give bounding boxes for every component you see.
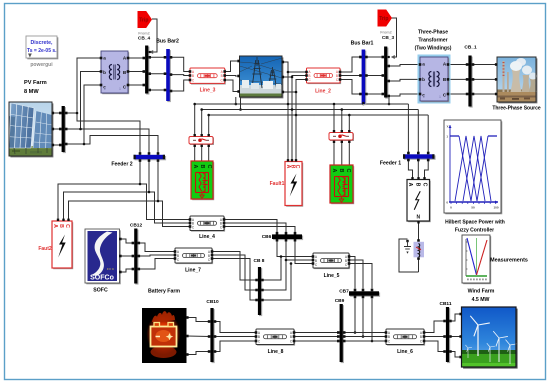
svg-text:A: A — [192, 165, 198, 169]
svg-text:Three-Phase: Three-Phase — [418, 30, 448, 36]
svg-text:F F C: F F C — [107, 267, 114, 271]
svg-text:Line_3: Line_3 — [200, 88, 216, 94]
svg-text:Line_7: Line_7 — [185, 268, 201, 274]
svg-text:Transformer: Transformer — [418, 38, 447, 44]
svg-text:100: 100 — [493, 206, 498, 210]
svg-text:C: C — [64, 224, 70, 228]
svg-text:B: B — [290, 335, 292, 339]
svg-text:Feeder 1: Feeder 1 — [380, 161, 401, 167]
svg-text:A: A — [407, 183, 413, 187]
svg-text:B: B — [192, 74, 194, 78]
svg-text:Trip: Trip — [379, 16, 388, 22]
svg-text:A: A — [52, 224, 58, 228]
svg-text:Bus Bar2: Bus Bar2 — [156, 39, 179, 45]
svg-text:SOFC: SOFC — [93, 288, 108, 294]
svg-text:Measurements: Measurements — [490, 258, 528, 264]
svg-text:N: N — [416, 215, 420, 221]
svg-text:Line_6: Line_6 — [397, 349, 413, 355]
svg-text:From2: From2 — [138, 32, 150, 36]
svg-text:Bus Bar1: Bus Bar1 — [351, 41, 374, 47]
svg-text:CB_1: CB_1 — [464, 45, 477, 51]
svg-text:B: B — [420, 335, 422, 339]
svg-text:1: 1 — [119, 87, 121, 91]
svg-text:B: B — [258, 335, 260, 339]
svg-text:B: B — [58, 224, 64, 228]
svg-text:Ts = 2e-05 s.: Ts = 2e-05 s. — [27, 48, 57, 54]
svg-text:Feeder 2: Feeder 2 — [111, 162, 132, 168]
svg-text:C: C — [345, 169, 351, 173]
svg-text:Line_2: Line_2 — [315, 89, 331, 95]
svg-text:CB 8: CB 8 — [254, 258, 265, 264]
svg-text:Discrete,: Discrete, — [31, 40, 53, 46]
svg-text:CB10: CB10 — [206, 299, 219, 305]
svg-text:CB12: CB12 — [130, 223, 143, 229]
svg-text:B: B — [388, 335, 390, 339]
svg-text:CB7: CB7 — [339, 289, 349, 295]
svg-text:C: C — [422, 183, 428, 187]
svg-text:B: B — [338, 169, 344, 173]
svg-text:Battery Farm: Battery Farm — [148, 289, 180, 295]
svg-text:b: b — [422, 77, 425, 82]
svg-text:Fuzzy Controller: Fuzzy Controller — [455, 228, 494, 234]
svg-text:1: 1 — [439, 95, 441, 99]
svg-text:B: B — [414, 183, 420, 187]
svg-text:8 MW: 8 MW — [24, 89, 39, 95]
svg-text:B: B — [199, 165, 205, 169]
svg-text:Wind Farm: Wind Farm — [468, 289, 495, 295]
svg-text:(Two Windings): (Two Windings) — [415, 46, 452, 52]
svg-text:2: 2 — [423, 95, 425, 99]
svg-text:Three-Phase Source: Three-Phase Source — [492, 106, 541, 112]
svg-text:4.5 MW: 4.5 MW — [472, 297, 490, 303]
svg-text:PV Farm: PV Farm — [24, 80, 47, 86]
svg-text:Hilbert Space Power with: Hilbert Space Power with — [445, 220, 505, 226]
svg-text:Line_5: Line_5 — [324, 273, 340, 279]
svg-text:Fault1: Fault1 — [270, 181, 285, 187]
svg-text:Line_4: Line_4 — [199, 234, 215, 240]
svg-text:Trip: Trip — [139, 18, 148, 24]
svg-text:b: b — [103, 70, 106, 75]
svg-text:A: A — [331, 169, 337, 173]
svg-text:SOFCo: SOFCo — [90, 274, 114, 281]
svg-text:50: 50 — [471, 206, 475, 210]
svg-text:C: C — [294, 165, 300, 169]
svg-text:CB11: CB11 — [440, 301, 452, 307]
svg-text:2: 2 — [104, 87, 106, 91]
svg-text:From2: From2 — [380, 31, 392, 35]
svg-text:CB_3: CB_3 — [382, 35, 395, 41]
svg-text:B: B — [221, 74, 223, 78]
svg-text:a: a — [103, 56, 106, 61]
svg-text:CB_4: CB_4 — [138, 36, 151, 42]
svg-text:C: C — [206, 165, 212, 169]
svg-text:Line_8: Line_8 — [268, 349, 284, 355]
svg-text:powergui: powergui — [30, 62, 53, 68]
svg-text:CB6: CB6 — [262, 234, 272, 240]
svg-text:CB9: CB9 — [335, 298, 345, 304]
svg-text:Faut2: Faut2 — [38, 246, 52, 252]
svg-text:a: a — [422, 62, 425, 67]
